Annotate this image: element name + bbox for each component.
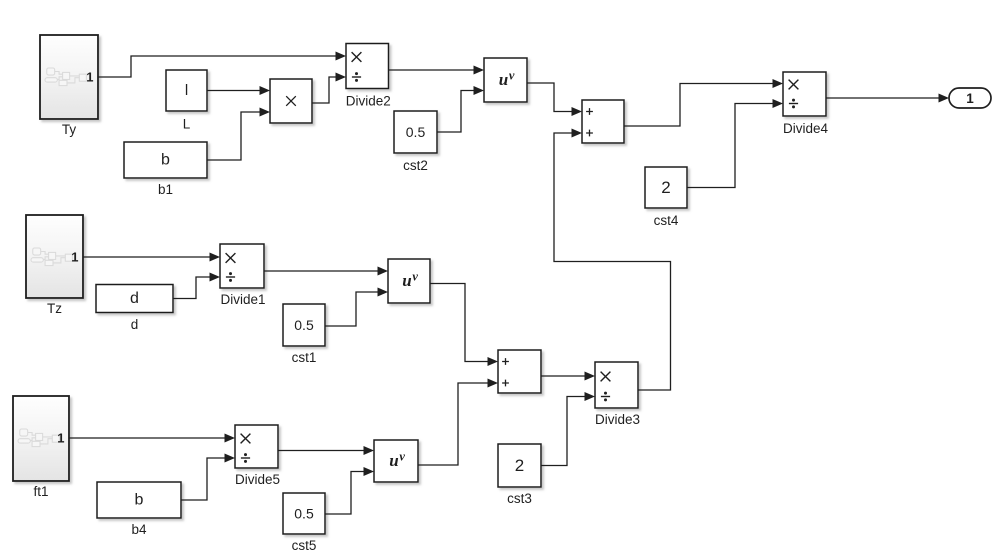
svg-text:1: 1 bbox=[966, 91, 974, 106]
svg-text:Divide3: Divide3 bbox=[595, 412, 640, 427]
svg-text:Divide5: Divide5 bbox=[235, 472, 280, 487]
svg-text:cst4: cst4 bbox=[654, 213, 679, 228]
svg-text:1: 1 bbox=[86, 70, 93, 85]
svg-text:Divide4: Divide4 bbox=[783, 121, 829, 136]
svg-text:b: b bbox=[161, 152, 170, 169]
svg-text:2: 2 bbox=[515, 456, 524, 475]
svg-text:0.5: 0.5 bbox=[294, 317, 314, 333]
svg-text:ft1: ft1 bbox=[33, 484, 48, 499]
svg-text:u: u bbox=[389, 451, 398, 470]
svg-text:d: d bbox=[130, 290, 139, 307]
svg-text:cst5: cst5 bbox=[292, 538, 317, 553]
svg-text:cst1: cst1 bbox=[292, 350, 317, 365]
svg-text:2: 2 bbox=[661, 178, 670, 197]
svg-text:v: v bbox=[412, 269, 418, 283]
svg-text:1: 1 bbox=[71, 250, 78, 265]
svg-text:u: u bbox=[499, 70, 508, 89]
svg-text:Divide2: Divide2 bbox=[346, 94, 391, 109]
svg-text:1: 1 bbox=[57, 431, 64, 446]
svg-text:b4: b4 bbox=[131, 522, 147, 537]
svg-text:0.5: 0.5 bbox=[294, 506, 314, 522]
svg-text:v: v bbox=[399, 449, 405, 463]
svg-text:L: L bbox=[183, 117, 191, 132]
svg-text:Ty: Ty bbox=[62, 122, 77, 137]
svg-text:d: d bbox=[131, 317, 139, 332]
svg-text:b: b bbox=[135, 492, 144, 509]
svg-text:b1: b1 bbox=[158, 182, 173, 197]
svg-text:Tz: Tz bbox=[47, 301, 62, 316]
svg-text:Divide1: Divide1 bbox=[220, 292, 265, 307]
svg-text:cst3: cst3 bbox=[507, 491, 532, 506]
svg-text:cst2: cst2 bbox=[403, 158, 428, 173]
svg-text:u: u bbox=[402, 271, 411, 290]
svg-text:0.5: 0.5 bbox=[406, 124, 426, 140]
svg-text:v: v bbox=[509, 68, 515, 82]
svg-text:l: l bbox=[185, 82, 188, 99]
